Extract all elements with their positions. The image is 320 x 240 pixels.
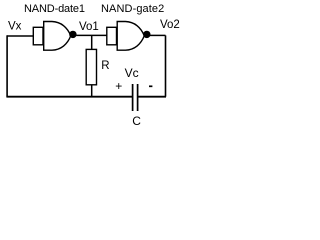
bubble/junction dot gate2 output [143,31,150,38]
label minus [149,85,152,87]
wire Vx input [7,35,33,37]
svg-text:+: + [115,79,122,93]
svg-text:Vo1: Vo1 [79,21,99,33]
capacitor C plates [133,84,138,111]
resistor R [86,49,96,84]
wire bottom left [6,96,132,98]
bubble/junction dot gate1 output [69,31,76,38]
NAND gate 2 [107,22,145,51]
svg-text:Vo2: Vo2 [160,19,180,31]
svg-text:Vc: Vc [125,66,139,80]
svg-text:Vx: Vx [8,21,22,33]
wire left rail [6,35,8,96]
svg-text:C: C [132,114,141,128]
wire bottom right [137,96,166,98]
wire Vo1 to gate2 [76,34,107,36]
wire resistor bottom [91,85,93,97]
wire resistor top [91,35,93,49]
svg-text:NAND-date1: NAND-date1 [24,3,85,15]
svg-text:R: R [101,60,109,72]
wire Vo2 [150,34,166,36]
NAND gate 1 [33,22,71,51]
wire right rail [165,35,167,96]
svg-text:NAND-gate2: NAND-gate2 [101,3,164,15]
